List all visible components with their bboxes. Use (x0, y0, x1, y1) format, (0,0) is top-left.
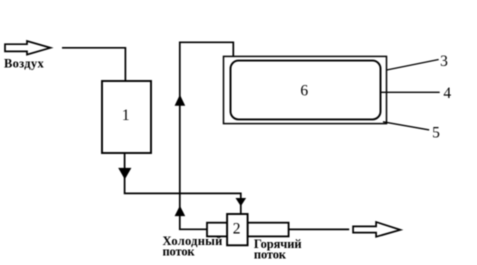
svg-text:3: 3 (440, 53, 448, 70)
block arrow (air inlet) (5, 41, 51, 55)
arrowhead up on cold line (lower) (175, 206, 186, 217)
box 1 (102, 81, 151, 153)
svg-text:6: 6 (300, 83, 308, 100)
wire box 1 to box 2 (125, 153, 241, 214)
svg-text:2: 2 (233, 221, 241, 238)
wire cold stream (box 2 to vessel 6) (180, 42, 234, 229)
box 2 (center) (227, 214, 248, 245)
leader line to 5 (383, 122, 429, 130)
wire hot outlet (289, 228, 350, 230)
arrowhead up on cold line (upper) (175, 95, 186, 106)
leader line to 4 (380, 91, 440, 93)
right pipe of box 2 (248, 223, 289, 237)
leader line to 3 (387, 60, 439, 71)
vessel 6 outer rectangle (224, 56, 387, 123)
vessel 6 inner rounded rectangle (231, 61, 381, 120)
svg-text:поток: поток (163, 245, 196, 259)
svg-text:Воздух: Воздух (4, 56, 44, 70)
vortex tube assembly: left pipe of box 2 (207, 223, 227, 237)
wire inlet to box 1 (62, 48, 125, 81)
svg-text:4: 4 (443, 85, 451, 102)
svg-text:поток: поток (254, 248, 287, 262)
arrowhead down below box 1 (118, 168, 131, 180)
svg-text:1: 1 (122, 107, 130, 124)
svg-text:5: 5 (432, 125, 440, 142)
arrowhead down above box 2 (236, 198, 247, 206)
block arrow (hot outlet) (353, 222, 400, 237)
